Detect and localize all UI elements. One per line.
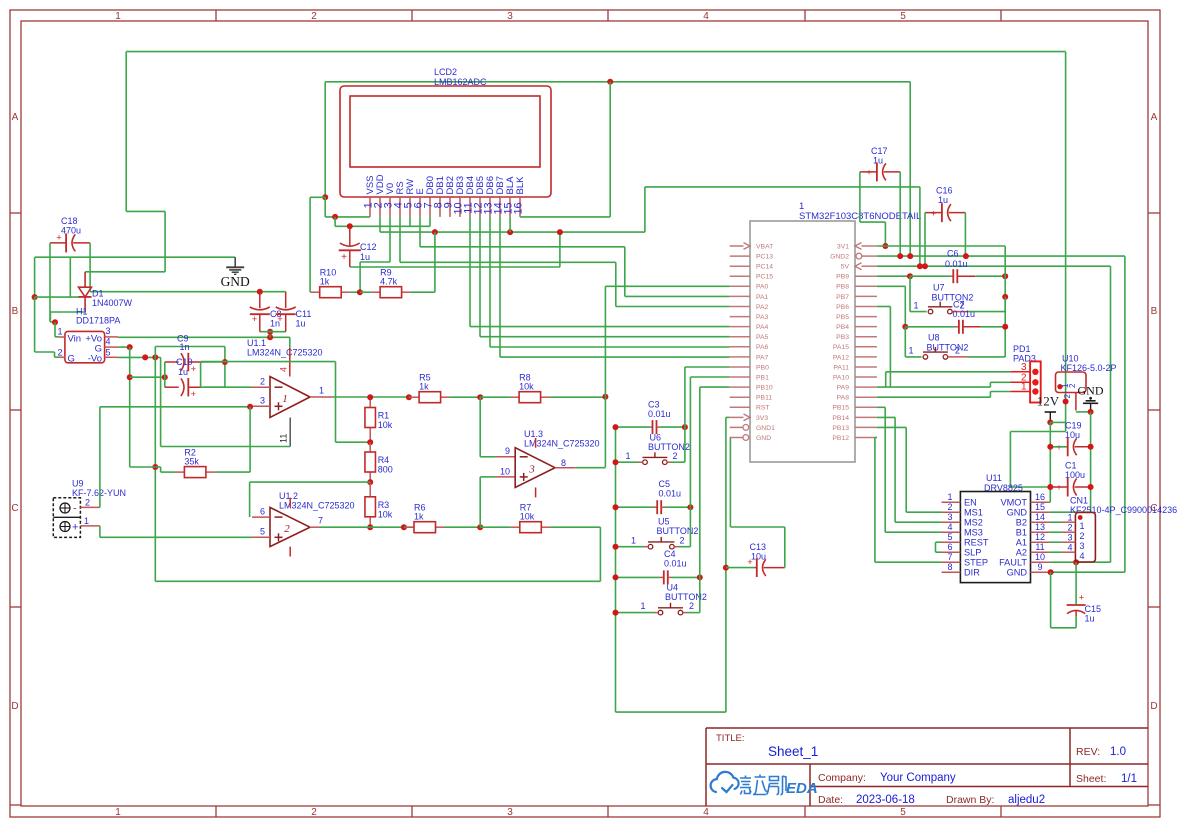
wire GND15 bbox=[1049, 511, 1090, 513]
U11 pin 7 STEP bbox=[942, 561, 961, 563]
svg-text:6: 6 bbox=[947, 542, 952, 552]
svg-text:A1: A1 bbox=[1016, 537, 1027, 547]
CN1 pin 2 bbox=[1062, 531, 1076, 533]
svg-text:2: 2 bbox=[311, 11, 317, 22]
svg-text:15: 15 bbox=[1035, 502, 1045, 512]
CN1 pin 3 bbox=[1062, 541, 1076, 543]
svg-text:PA9: PA9 bbox=[837, 385, 850, 392]
wire GND pin to C13 bbox=[729, 438, 731, 528]
svg-text:PB7: PB7 bbox=[836, 294, 849, 301]
U11 pin 13 B1 bbox=[1031, 531, 1050, 533]
svg-text:1: 1 bbox=[319, 386, 324, 396]
svg-text:MS2: MS2 bbox=[964, 517, 983, 527]
svg-text:U1.3: U1.3 bbox=[524, 429, 543, 439]
svg-text:U7: U7 bbox=[933, 283, 945, 293]
svg-text:CN1: CN1 bbox=[1070, 496, 1088, 506]
svg-text:+: + bbox=[191, 389, 197, 400]
wire REST-SLP strap bbox=[935, 542, 937, 552]
connector CN1 body bbox=[1075, 512, 1095, 562]
svg-text:+: + bbox=[1079, 593, 1085, 604]
junction bbox=[613, 424, 619, 430]
svg-text:PC14: PC14 bbox=[756, 264, 773, 271]
junction bbox=[152, 464, 158, 470]
svg-text:7: 7 bbox=[947, 552, 952, 562]
svg-text:3: 3 bbox=[947, 512, 952, 522]
svg-text:GND1: GND1 bbox=[756, 425, 775, 432]
junction bbox=[142, 354, 148, 360]
svg-text:1/1: 1/1 bbox=[1121, 773, 1137, 785]
junction bbox=[247, 404, 253, 410]
svg-text:4: 4 bbox=[279, 367, 289, 372]
svg-text:PB8: PB8 bbox=[836, 284, 849, 291]
junction bbox=[127, 374, 133, 380]
wire 5V to DRV FAULT bbox=[1110, 266, 1112, 562]
wire GND top loop bbox=[325, 81, 910, 83]
svg-text:PB11: PB11 bbox=[756, 395, 772, 402]
svg-text:2: 2 bbox=[1068, 383, 1077, 388]
svg-text:RST: RST bbox=[756, 405, 770, 412]
svg-text:Date:: Date: bbox=[818, 794, 843, 806]
junction bbox=[152, 354, 158, 360]
wire button bus bbox=[615, 427, 617, 712]
wire VDD 5V line bbox=[380, 231, 645, 233]
svg-text:Company:: Company: bbox=[818, 772, 866, 784]
svg-text:Drawn By:: Drawn By: bbox=[946, 794, 994, 806]
junction bbox=[367, 394, 373, 400]
wire 3V3 net bbox=[725, 417, 727, 712]
U11 pin 8 DIR bbox=[942, 571, 961, 573]
junction bbox=[1047, 484, 1053, 490]
wire 12V rail down bbox=[1065, 52, 1067, 432]
svg-text:8: 8 bbox=[947, 562, 952, 572]
svg-text:1u: 1u bbox=[178, 367, 188, 377]
svg-text:13: 13 bbox=[1035, 522, 1045, 532]
svg-text:4: 4 bbox=[106, 337, 111, 347]
svg-text:PA5: PA5 bbox=[756, 334, 769, 341]
svg-text:14: 14 bbox=[1035, 512, 1045, 522]
svg-text:PA10: PA10 bbox=[833, 374, 849, 381]
svg-text:PD1: PD1 bbox=[1013, 344, 1031, 354]
svg-text:PC15: PC15 bbox=[756, 274, 773, 281]
svg-text:1k: 1k bbox=[419, 382, 429, 392]
wire 12V elbow bbox=[1010, 431, 1065, 433]
svg-text:470u: 470u bbox=[61, 226, 81, 236]
svg-text:REST: REST bbox=[964, 537, 989, 547]
wire U9.2 to U1.1 pin3 bbox=[99, 407, 101, 508]
svg-text:4: 4 bbox=[703, 11, 709, 22]
svg-text:5: 5 bbox=[106, 348, 111, 358]
U11 pin 3 MS2 bbox=[942, 521, 961, 523]
wire to PD1 pin3 bbox=[886, 371, 1011, 373]
svg-text:2: 2 bbox=[284, 523, 290, 535]
U11 pin 6 SLP bbox=[942, 551, 961, 553]
svg-text:2: 2 bbox=[947, 502, 952, 512]
junction bbox=[1088, 444, 1094, 450]
svg-text:SLP: SLP bbox=[964, 547, 981, 557]
svg-text:PA7: PA7 bbox=[756, 354, 769, 361]
op-amp U1.2 bbox=[270, 507, 310, 546]
regulator H1 body bbox=[65, 331, 105, 362]
svg-text:EDA: EDA bbox=[786, 780, 818, 797]
svg-text:10: 10 bbox=[1035, 552, 1045, 562]
junction Vin bbox=[52, 319, 58, 325]
U11 pin 2 MS1 bbox=[942, 511, 961, 513]
svg-text:Your Company: Your Company bbox=[880, 772, 956, 784]
junction bbox=[1048, 569, 1054, 575]
svg-text:C4: C4 bbox=[664, 549, 676, 559]
svg-text:Sheet:: Sheet: bbox=[1076, 773, 1106, 785]
junction bbox=[367, 439, 373, 445]
wire DB6 to PA6 bbox=[489, 217, 491, 347]
svg-text:PA3: PA3 bbox=[756, 314, 769, 321]
svg-text:12: 12 bbox=[1035, 532, 1045, 542]
driver U11 DRV8825 body bbox=[960, 492, 1030, 583]
svg-text:10k: 10k bbox=[520, 512, 535, 522]
resistor R8 bbox=[480, 396, 510, 398]
svg-text:PB4: PB4 bbox=[836, 324, 849, 331]
svg-text:D: D bbox=[11, 701, 18, 712]
U11 pin 4 MS3 bbox=[942, 531, 961, 533]
junction bbox=[477, 394, 483, 400]
U1.1 pin 11 power bbox=[289, 418, 291, 447]
junction bbox=[1002, 273, 1008, 279]
svg-text:4: 4 bbox=[1080, 551, 1085, 561]
svg-text:3V3: 3V3 bbox=[756, 415, 768, 422]
wire PB0 net bbox=[684, 367, 686, 462]
svg-text:2: 2 bbox=[955, 346, 960, 356]
svg-text:B: B bbox=[1151, 306, 1158, 317]
wire 12V top loop bbox=[126, 51, 1065, 53]
svg-text:VBAT: VBAT bbox=[756, 243, 773, 250]
junction bbox=[1047, 419, 1053, 425]
svg-text:PA12: PA12 bbox=[833, 354, 849, 361]
wire GND rail left bbox=[35, 256, 236, 258]
svg-text:2: 2 bbox=[689, 601, 694, 611]
junction bbox=[723, 565, 729, 571]
U11 pin 10 FAULT bbox=[1031, 561, 1050, 563]
wire to PD1 pin1 bbox=[990, 391, 1010, 393]
svg-text:C12: C12 bbox=[360, 242, 377, 252]
svg-text:C6: C6 bbox=[947, 249, 959, 259]
svg-text:35k: 35k bbox=[184, 457, 199, 467]
wire C18 right bbox=[89, 243, 91, 292]
wire DB7 to PA7 bbox=[499, 217, 501, 357]
wire U9.1 to U1.2 pin5 bbox=[99, 526, 101, 537]
svg-text:PA15: PA15 bbox=[833, 344, 849, 351]
svg-text:10k: 10k bbox=[378, 509, 393, 519]
pushbutton U5 bbox=[648, 544, 653, 549]
svg-text:GND: GND bbox=[1007, 507, 1028, 517]
wire GND rail right bbox=[1090, 412, 1092, 512]
svg-text:1: 1 bbox=[640, 601, 645, 611]
resistor R5 bbox=[409, 396, 410, 398]
svg-text:BUTTON2: BUTTON2 bbox=[657, 526, 699, 536]
svg-text:1: 1 bbox=[908, 346, 913, 356]
svg-text:1u: 1u bbox=[1085, 614, 1095, 624]
svg-text:GND: GND bbox=[1007, 567, 1028, 577]
svg-text:KF2510-4P_C9900014236: KF2510-4P_C9900014236 bbox=[1070, 505, 1177, 515]
frame column ticks bbox=[215, 10, 217, 21]
svg-text:REV:: REV: bbox=[1076, 746, 1100, 758]
svg-text:4: 4 bbox=[1067, 543, 1072, 553]
resistor R1 bbox=[369, 397, 371, 407]
op-amp U1.1 bbox=[270, 377, 310, 418]
svg-text:1: 1 bbox=[1067, 513, 1072, 523]
svg-text:U1.2: U1.2 bbox=[279, 491, 298, 501]
svg-text:4: 4 bbox=[703, 807, 709, 818]
svg-text:B1: B1 bbox=[1016, 527, 1027, 537]
junction bbox=[406, 394, 412, 400]
wire PB14 to MS2 bbox=[894, 417, 896, 522]
wire VMOT rail bbox=[1049, 422, 1051, 502]
svg-text:1: 1 bbox=[282, 393, 288, 405]
svg-text:1: 1 bbox=[115, 11, 121, 22]
wire PB9 row bbox=[877, 275, 910, 277]
junction bbox=[682, 424, 688, 430]
svg-text:+: + bbox=[866, 168, 872, 179]
svg-text:A: A bbox=[12, 112, 19, 123]
svg-text:10k: 10k bbox=[378, 420, 393, 430]
svg-text:-: - bbox=[73, 503, 77, 515]
wire PA8 row bbox=[877, 396, 991, 398]
resistor R4 bbox=[369, 442, 371, 452]
svg-text:1: 1 bbox=[1080, 521, 1085, 531]
wire feedback loop U1.1 bbox=[201, 386, 252, 388]
wire C12 bottom to 5V net bbox=[350, 266, 560, 268]
svg-text:+: + bbox=[277, 314, 283, 325]
STM32 right pins bbox=[862, 245, 877, 247]
U11 pin 14 B2 bbox=[1031, 521, 1050, 523]
junction bbox=[613, 574, 619, 580]
svg-text:1: 1 bbox=[84, 516, 89, 526]
EasyEDA logo bbox=[711, 772, 739, 792]
CN1 pin 4 bbox=[1062, 551, 1076, 553]
junction bbox=[162, 374, 168, 380]
svg-text:3V1: 3V1 bbox=[837, 243, 849, 250]
svg-text:D: D bbox=[1150, 701, 1157, 712]
svg-text:U10: U10 bbox=[1062, 354, 1079, 364]
wire PB1 net bbox=[689, 377, 691, 507]
svg-text:PA2: PA2 bbox=[756, 304, 769, 311]
svg-text:MS1: MS1 bbox=[964, 507, 983, 517]
svg-text:U9: U9 bbox=[72, 479, 84, 489]
svg-text:U1.1: U1.1 bbox=[247, 338, 266, 348]
svg-text:800: 800 bbox=[378, 465, 393, 475]
title block bbox=[706, 727, 1148, 729]
MCU STM32 body bbox=[750, 221, 855, 462]
wire 3V1 row bbox=[877, 245, 1005, 247]
svg-text:C: C bbox=[11, 503, 18, 514]
svg-text:3: 3 bbox=[106, 326, 111, 336]
ground symbol GND mid bbox=[234, 257, 236, 267]
svg-text:GND: GND bbox=[221, 274, 250, 289]
wire PB6 bbox=[877, 306, 891, 308]
svg-text:TITLE:: TITLE: bbox=[716, 733, 745, 744]
wire output net bbox=[333, 396, 409, 398]
svg-text:PB9: PB9 bbox=[836, 274, 849, 281]
svg-text:B2: B2 bbox=[1016, 517, 1027, 527]
svg-text:DD1718PA: DD1718PA bbox=[76, 316, 120, 326]
svg-text:PA0: PA0 bbox=[756, 284, 769, 291]
svg-text:C5: C5 bbox=[659, 479, 671, 489]
svg-text:0.01u: 0.01u bbox=[659, 489, 682, 499]
svg-text:aljedu2: aljedu2 bbox=[1008, 794, 1045, 806]
wire DB4 to PA4 bbox=[469, 217, 471, 327]
wire 5V drop bbox=[919, 187, 921, 266]
svg-text:+: + bbox=[747, 557, 753, 568]
junction bbox=[367, 479, 373, 485]
svg-text:LCD2: LCD2 bbox=[434, 67, 457, 77]
svg-text:7: 7 bbox=[318, 516, 323, 526]
svg-text:PB5: PB5 bbox=[836, 314, 849, 321]
wire GND2 to DRV GND9 bbox=[1124, 256, 1126, 572]
junction bbox=[613, 544, 619, 550]
svg-text:U5: U5 bbox=[658, 517, 670, 527]
svg-text:D1: D1 bbox=[92, 289, 104, 299]
resistor R7 bbox=[480, 526, 511, 528]
svg-text:+: + bbox=[252, 314, 258, 325]
wire PB12 to STEP bbox=[874, 438, 876, 563]
svg-text:2: 2 bbox=[673, 451, 678, 461]
junction bbox=[1088, 484, 1094, 490]
junction bbox=[32, 294, 38, 300]
junction bbox=[902, 324, 908, 330]
svg-text:1: 1 bbox=[631, 536, 636, 546]
pad connector PD1 bbox=[1030, 361, 1041, 402]
svg-text:PB6: PB6 bbox=[836, 304, 849, 311]
U11 pin 11 A2 bbox=[1031, 551, 1050, 553]
svg-text:PB13: PB13 bbox=[832, 425, 849, 432]
wire BLK bbox=[520, 216, 610, 218]
svg-text:0.01u: 0.01u bbox=[953, 309, 976, 319]
wire PB8 row bbox=[877, 285, 905, 287]
U1.1 pin 4 power bbox=[289, 348, 291, 377]
svg-text:MS3: MS3 bbox=[964, 527, 983, 537]
svg-text:1k: 1k bbox=[320, 277, 330, 287]
junction bbox=[613, 610, 619, 616]
svg-text:LM324N_C725320: LM324N_C725320 bbox=[247, 348, 323, 358]
wire FAULT bbox=[1049, 561, 1110, 563]
svg-text:1n: 1n bbox=[180, 342, 190, 352]
svg-text:GND: GND bbox=[1078, 384, 1104, 398]
svg-text:PB1: PB1 bbox=[756, 374, 769, 381]
svg-text:DIR: DIR bbox=[964, 567, 980, 577]
svg-text:4.7k: 4.7k bbox=[380, 277, 398, 287]
svg-text:5: 5 bbox=[900, 807, 906, 818]
svg-text:C18: C18 bbox=[61, 216, 78, 226]
svg-text:PB12: PB12 bbox=[832, 435, 849, 442]
svg-text:+: + bbox=[1056, 443, 1062, 454]
svg-text:5: 5 bbox=[900, 11, 906, 22]
svg-text:16: 16 bbox=[513, 202, 525, 214]
svg-text:1u: 1u bbox=[938, 195, 948, 205]
svg-text:BUTTON2: BUTTON2 bbox=[927, 343, 969, 353]
wire PB15 to MS3 bbox=[884, 407, 886, 532]
svg-text:5V: 5V bbox=[841, 264, 850, 271]
svg-text:10u: 10u bbox=[751, 552, 766, 562]
wire to PD1 pin2 bbox=[990, 381, 1010, 383]
resistor R3 bbox=[369, 482, 371, 497]
svg-text:2: 2 bbox=[260, 377, 265, 387]
svg-text:EN: EN bbox=[964, 497, 977, 507]
svg-text:9: 9 bbox=[505, 446, 510, 456]
svg-text:U8: U8 bbox=[928, 333, 940, 343]
svg-text:2: 2 bbox=[1067, 523, 1072, 533]
junction bbox=[357, 289, 363, 295]
svg-text:5: 5 bbox=[947, 532, 952, 542]
resistor R2 bbox=[161, 471, 176, 473]
junction bbox=[1002, 294, 1008, 300]
svg-text:6: 6 bbox=[260, 507, 265, 517]
junction bbox=[257, 289, 263, 295]
junction bbox=[127, 344, 133, 350]
wire VMOT bbox=[1048, 501, 1051, 503]
connector U9 body bbox=[53, 498, 80, 538]
wire RS to PA2 bbox=[399, 217, 401, 262]
wire C17 left leg bbox=[859, 172, 861, 222]
wire GND9 bbox=[1049, 571, 1125, 573]
wire C17 right to GND2 bbox=[899, 172, 901, 256]
svg-text:C17: C17 bbox=[871, 146, 888, 156]
junction bbox=[1073, 559, 1079, 565]
svg-text:2: 2 bbox=[1080, 531, 1085, 541]
svg-text:PB0: PB0 bbox=[756, 364, 769, 371]
svg-text:PB3: PB3 bbox=[836, 334, 849, 341]
svg-text:3: 3 bbox=[1080, 541, 1085, 551]
wire bottom loop bbox=[155, 580, 600, 582]
svg-text:0.01u: 0.01u bbox=[945, 259, 968, 269]
junction bbox=[401, 524, 407, 530]
svg-text:5: 5 bbox=[260, 527, 265, 537]
wire U1.1 pin11 to -Vo bbox=[160, 357, 162, 446]
svg-text:C16: C16 bbox=[936, 186, 953, 196]
svg-text:1: 1 bbox=[57, 327, 62, 337]
junction bbox=[907, 273, 913, 279]
svg-text:G: G bbox=[68, 353, 75, 364]
svg-text:8: 8 bbox=[561, 458, 566, 468]
svg-text:U6: U6 bbox=[650, 433, 662, 443]
svg-text:PA1: PA1 bbox=[756, 294, 769, 301]
svg-text:Vin: Vin bbox=[68, 334, 82, 345]
svg-text:1: 1 bbox=[625, 451, 630, 461]
svg-text:BLK: BLK bbox=[515, 176, 526, 195]
svg-text:1u: 1u bbox=[296, 319, 306, 329]
resistor R6 bbox=[404, 526, 405, 528]
connector U10 body bbox=[1056, 372, 1087, 393]
svg-text:BUTTON2: BUTTON2 bbox=[648, 442, 690, 452]
wire GND2 row bbox=[877, 255, 1125, 257]
junction bbox=[222, 359, 228, 365]
pushbutton U6 bbox=[643, 460, 648, 465]
svg-text:STEP: STEP bbox=[964, 557, 988, 567]
svg-text:4: 4 bbox=[947, 522, 952, 532]
junction bbox=[613, 504, 619, 510]
junction bbox=[477, 524, 483, 530]
svg-text:10: 10 bbox=[500, 467, 510, 477]
svg-text:C7: C7 bbox=[953, 300, 965, 310]
wire to U1.3 pin10 bbox=[479, 477, 481, 527]
svg-text:-Vo: -Vo bbox=[88, 353, 102, 364]
svg-text:FAULT: FAULT bbox=[999, 557, 1027, 567]
svg-text:2: 2 bbox=[85, 498, 90, 508]
svg-text:R4: R4 bbox=[378, 455, 390, 465]
svg-text:16: 16 bbox=[1035, 492, 1045, 502]
junction bbox=[367, 524, 373, 530]
svg-text:U4: U4 bbox=[667, 583, 679, 593]
U11 pin 9 GND bbox=[1031, 571, 1050, 573]
svg-text:0.01u: 0.01u bbox=[664, 559, 687, 569]
svg-text:PA11: PA11 bbox=[833, 364, 849, 371]
